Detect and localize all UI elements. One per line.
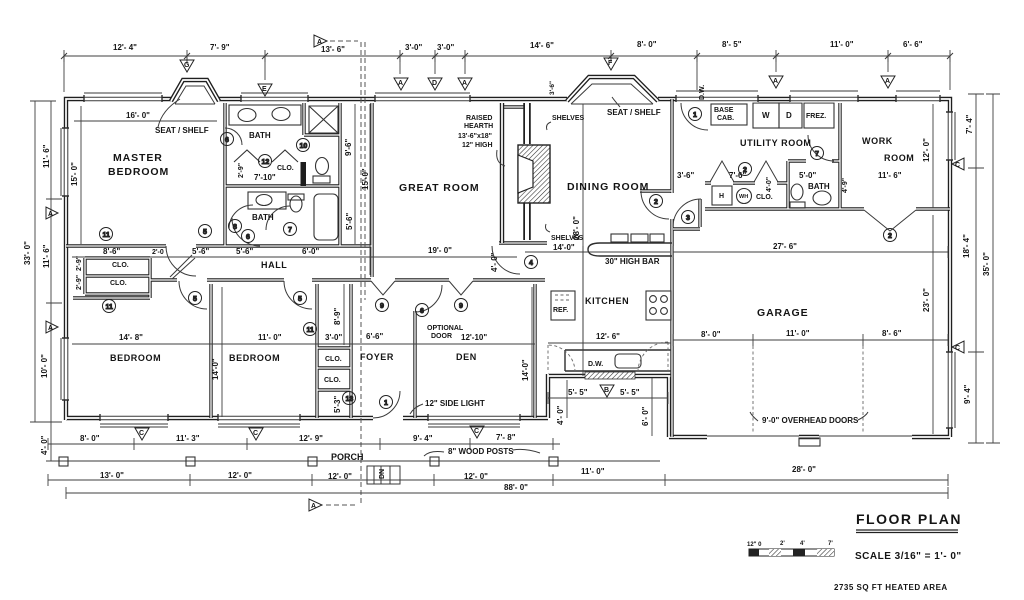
svg-text:D.W.: D.W. — [699, 85, 706, 100]
svg-text:4'- 0": 4'- 0" — [556, 405, 565, 425]
svg-text:DINING ROOM: DINING ROOM — [567, 181, 649, 193]
svg-text:4: 4 — [529, 260, 533, 267]
left inner dimension line — [46, 101, 62, 461]
svg-text:BATH: BATH — [252, 213, 274, 222]
svg-text:5'-3": 5'-3" — [333, 396, 342, 413]
svg-text:23'- 0": 23'- 0" — [922, 288, 931, 312]
marker B kitchen — [600, 385, 614, 397]
svg-text:9: 9 — [459, 303, 463, 310]
wall marker A left2 — [46, 321, 58, 333]
svg-text:BEDROOM: BEDROOM — [108, 166, 169, 178]
svg-text:12'- 0": 12'- 0" — [228, 471, 252, 480]
svg-text:12" 0: 12" 0 — [747, 542, 762, 548]
master wc toilet — [316, 158, 329, 175]
bay window dining outline — [567, 77, 658, 101]
bay window master outline — [171, 80, 219, 101]
svg-text:C: C — [139, 430, 144, 437]
fireplace masonry wall — [523, 103, 531, 240]
svg-text:HEARTH: HEARTH — [464, 123, 493, 130]
svg-text:35'- 0": 35'- 0" — [982, 252, 991, 276]
utility WH circle — [737, 189, 752, 204]
svg-text:8" WOOD POSTS: 8" WOOD POSTS — [448, 447, 514, 456]
svg-text:7'- 8": 7'- 8" — [496, 433, 516, 442]
svg-text:11: 11 — [103, 232, 111, 239]
svg-text:14'- 8": 14'- 8" — [119, 333, 143, 342]
svg-text:W: W — [762, 111, 770, 120]
svg-text:14'-0": 14'-0" — [211, 358, 220, 380]
svg-text:12'- 0": 12'- 0" — [464, 472, 488, 481]
wall marker A left1 — [46, 207, 58, 219]
svg-text:8'- 0": 8'- 0" — [701, 330, 721, 339]
porch post 2 — [186, 457, 195, 466]
bath2 tub — [314, 194, 338, 240]
svg-text:OPTIONAL: OPTIONAL — [427, 325, 464, 332]
window sills bottom wall — [100, 424, 520, 427]
kitchen door swing dashed right — [638, 342, 668, 372]
svg-text:KITCHEN: KITCHEN — [585, 296, 629, 306]
porch marker C3 — [470, 426, 484, 438]
door arc dining-garage — [641, 191, 669, 219]
svg-text:WH: WH — [739, 194, 748, 200]
bedrooms dimension line — [72, 343, 535, 345]
window sills right wall — [954, 112, 956, 428]
svg-text:DEN: DEN — [456, 352, 477, 362]
refrigerator — [551, 291, 575, 320]
svg-text:DOOR: DOOR — [431, 333, 452, 340]
door arc wc bath2 — [266, 206, 290, 230]
porch post 4 — [430, 457, 439, 466]
svg-text:11'- 0": 11'- 0" — [581, 467, 605, 476]
triangle marker E — [258, 84, 272, 96]
utility bath sink — [813, 191, 831, 205]
svg-text:27'- 6": 27'- 6" — [773, 242, 797, 251]
kitchen bottom counter — [565, 350, 671, 371]
svg-text:7': 7' — [828, 541, 833, 547]
svg-text:MASTER: MASTER — [113, 152, 163, 164]
svg-text:9: 9 — [380, 303, 384, 310]
circle 1 a — [380, 396, 393, 409]
svg-text:11'- 0": 11'- 0" — [258, 333, 282, 342]
svg-text:13: 13 — [346, 396, 354, 403]
svg-text:D: D — [432, 80, 437, 87]
svg-text:11'- 3": 11'- 3" — [176, 434, 200, 443]
porch post 1 — [59, 457, 68, 466]
bath2 vanity — [248, 192, 286, 209]
door arc utility bath — [808, 135, 834, 161]
window sills top wall — [84, 91, 940, 93]
svg-text:1: 1 — [384, 400, 388, 407]
porch post 3 — [308, 457, 317, 466]
svg-text:2: 2 — [743, 167, 747, 174]
svg-text:BEDROOM: BEDROOM — [229, 353, 280, 363]
porch marker C1 — [135, 428, 149, 440]
svg-text:FOYER: FOYER — [360, 352, 394, 362]
dryer box — [779, 103, 802, 128]
circle 10 — [297, 139, 310, 152]
svg-text:12'-10": 12'-10" — [461, 333, 487, 342]
svg-text:FREZ.: FREZ. — [806, 113, 826, 120]
door arc dining south — [492, 246, 520, 274]
svg-text:88'- 0": 88'- 0" — [504, 483, 528, 492]
master bath sink left — [238, 109, 256, 122]
svg-text:6: 6 — [246, 234, 250, 241]
door arc bath2 inner — [229, 205, 253, 229]
wall marker C right2 — [952, 341, 964, 353]
door arc den — [415, 285, 442, 312]
svg-text:D.W.: D.W. — [588, 361, 603, 368]
svg-text:5'-6": 5'-6" — [236, 247, 253, 256]
master bath sink right — [272, 108, 290, 121]
svg-text:14'-0": 14'-0" — [553, 243, 575, 252]
svg-text:CAB.: CAB. — [717, 115, 734, 122]
hall dimension line — [72, 256, 517, 258]
svg-text:6'- 0": 6'- 0" — [641, 406, 650, 426]
freezer box — [804, 103, 834, 128]
utility folding door right — [754, 161, 778, 182]
svg-text:7'-10": 7'-10" — [254, 173, 276, 182]
french door V right — [449, 281, 473, 295]
circle 9 a — [376, 299, 389, 312]
circle 7 b — [811, 147, 824, 160]
hall door5 diagonal leaf — [172, 258, 195, 279]
svg-text:4'-9": 4'-9" — [842, 178, 849, 193]
svg-text:33'- 0": 33'- 0" — [23, 241, 32, 265]
pocket door dark bar — [301, 162, 307, 186]
svg-text:5'- 5": 5'- 5" — [620, 388, 640, 397]
porch row2 dimension — [48, 474, 948, 486]
svg-text:H: H — [719, 193, 724, 200]
kitchen sink — [615, 354, 641, 368]
circle 5 c — [294, 292, 307, 305]
svg-text:ROOM: ROOM — [884, 153, 914, 163]
svg-text:5'-6": 5'-6" — [192, 247, 209, 256]
svg-text:8: 8 — [233, 224, 237, 231]
svg-text:9'- 4": 9'- 4" — [963, 384, 972, 404]
door arc vestibule-garage — [673, 199, 701, 227]
svg-text:5: 5 — [203, 229, 207, 236]
svg-text:SHELVES: SHELVES — [552, 115, 584, 122]
svg-text:13'-6"x18": 13'-6"x18" — [458, 133, 492, 140]
wall marker C right1 — [952, 158, 964, 170]
svg-text:A: A — [311, 503, 316, 510]
utility base cabinet — [711, 104, 747, 125]
fireplace hatched mass — [518, 145, 550, 203]
svg-text:12'- 6": 12'- 6" — [596, 332, 620, 341]
scale bar — [747, 541, 834, 556]
porch steps DN box — [367, 466, 400, 484]
svg-text:6: 6 — [225, 137, 229, 144]
svg-text:5'- 5": 5'- 5" — [568, 388, 588, 397]
svg-text:18'- 4": 18'- 4" — [962, 234, 971, 258]
svg-text:2'-0: 2'-0 — [152, 249, 164, 256]
circle 5 a — [199, 225, 212, 238]
svg-text:13'- 6": 13'- 6" — [321, 45, 345, 54]
svg-text:7: 7 — [815, 151, 819, 158]
svg-text:REF.: REF. — [553, 307, 568, 314]
svg-text:CLO.: CLO. — [324, 377, 341, 384]
porch marker C2 — [249, 428, 263, 440]
svg-text:11'- 0": 11'- 0" — [786, 329, 810, 338]
svg-text:3'-6": 3'-6" — [549, 81, 556, 95]
circle 11 b — [103, 300, 116, 313]
svg-text:7: 7 — [288, 227, 292, 234]
svg-text:E: E — [262, 86, 267, 93]
door arc bedroom1 — [179, 281, 207, 309]
svg-text:8'-6": 8'-6" — [103, 247, 120, 256]
svg-text:12" SIDE LIGHT: 12" SIDE LIGHT — [425, 399, 485, 408]
triangle marker A1 — [394, 78, 408, 90]
triangle marker G — [180, 60, 194, 72]
right outer dimension line 35-0 — [986, 94, 1000, 443]
circle 1 b — [689, 108, 702, 121]
kitchen top counters — [611, 234, 628, 242]
master 16-0 dim — [74, 120, 217, 122]
svg-text:11: 11 — [106, 304, 114, 311]
svg-text:4'- 0": 4'- 0" — [490, 252, 499, 272]
door arc master bedroom — [166, 246, 196, 277]
svg-text:A: A — [48, 211, 53, 218]
svg-text:FLOOR PLAN: FLOOR PLAN — [856, 511, 962, 527]
overall 88-0 dimension — [66, 487, 948, 499]
svg-text:16'- 0": 16'- 0" — [126, 111, 150, 120]
svg-text:11'- 6": 11'- 6" — [42, 144, 51, 168]
svg-text:A: A — [885, 78, 890, 85]
svg-text:3: 3 — [686, 215, 690, 222]
svg-text:3'-6": 3'-6" — [677, 171, 694, 180]
svg-text:8'-9": 8'-9" — [333, 308, 342, 325]
svg-text:8'- 5": 8'- 5" — [722, 40, 742, 49]
svg-text:C: C — [253, 430, 258, 437]
window breaks bottom wall — [100, 414, 520, 422]
utility H box — [712, 186, 732, 205]
svg-text:A: A — [398, 80, 403, 87]
svg-text:11: 11 — [307, 327, 315, 334]
svg-text:30" HIGH BAR: 30" HIGH BAR — [605, 257, 660, 266]
circle 7 a — [284, 223, 297, 236]
garage work room double door — [864, 210, 916, 231]
triangle marker A2 — [458, 78, 472, 90]
bath2 toilet — [290, 196, 302, 212]
window sills left wall — [60, 128, 62, 400]
recess 4-0 dim — [566, 380, 568, 418]
svg-text:7'- 9": 7'- 9" — [210, 43, 230, 52]
triangle marker A3 — [769, 76, 783, 88]
svg-text:C: C — [955, 162, 960, 169]
svg-text:CLO.: CLO. — [277, 165, 294, 172]
washer box — [753, 103, 779, 128]
svg-text:6'- 6": 6'- 6" — [903, 40, 923, 49]
circle 9 b — [455, 299, 468, 312]
dining-garage dimension line — [525, 246, 948, 258]
porch deck edge — [48, 460, 660, 462]
svg-text:4'-0": 4'-0" — [766, 177, 773, 192]
circle 3 — [682, 211, 695, 224]
recess 6-0 dim — [651, 378, 653, 436]
kitchen 5-5 dimension — [548, 392, 668, 404]
garage inner dimension line — [673, 334, 948, 346]
svg-text:1: 1 — [693, 112, 697, 119]
svg-text:12'- 4": 12'- 4" — [113, 43, 137, 52]
svg-text:SHELVES: SHELVES — [551, 235, 583, 242]
svg-text:C: C — [474, 428, 479, 435]
svg-text:28'- 0": 28'- 0" — [792, 465, 816, 474]
kitchen door swing dashed left — [548, 345, 575, 372]
svg-text:8'- 0": 8'- 0" — [80, 434, 100, 443]
svg-text:WORK: WORK — [862, 136, 893, 146]
top dimension line — [64, 50, 950, 62]
window breaks top wall — [84, 95, 940, 103]
svg-text:5'-0": 5'-0" — [799, 171, 816, 180]
svg-text:5: 5 — [298, 296, 302, 303]
section marker A bottom — [309, 499, 322, 511]
exterior walls — [66, 99, 950, 437]
circle 11 c — [304, 323, 317, 336]
door arc foyer front — [373, 391, 400, 418]
svg-text:A: A — [462, 80, 467, 87]
svg-text:8'- 0": 8'- 0" — [637, 40, 657, 49]
svg-text:PORCH: PORCH — [331, 452, 364, 462]
svg-text:12'- 0": 12'- 0" — [328, 472, 352, 481]
svg-text:SEAT / SHELF: SEAT / SHELF — [155, 126, 209, 135]
svg-text:5: 5 — [193, 296, 197, 303]
porch row1 dimension — [48, 438, 560, 450]
svg-text:DN: DN — [379, 469, 386, 479]
door arc master bath — [225, 128, 242, 145]
bay inner seat lines — [175, 86, 215, 104]
svg-text:UTILITY ROOM: UTILITY ROOM — [740, 138, 812, 148]
svg-text:3'-0": 3'-0" — [325, 333, 342, 342]
svg-text:BATH: BATH — [808, 182, 830, 191]
porch post 5 — [549, 457, 558, 466]
circle 13 — [343, 392, 356, 405]
circle 5 b — [189, 292, 202, 305]
section cut dashed line A-A — [326, 41, 365, 505]
svg-text:D: D — [786, 111, 792, 120]
master bath vanity counter — [229, 105, 301, 125]
svg-text:3'-0": 3'-0" — [405, 43, 422, 52]
section marker A top — [314, 35, 327, 47]
garage door panel right — [819, 435, 912, 437]
circle 2 b — [739, 163, 752, 176]
circle 12 — [259, 155, 272, 168]
svg-text:2'-9": 2'-9" — [238, 163, 245, 178]
svg-text:SCALE 3/16" = 1'- 0": SCALE 3/16" = 1'- 0" — [855, 551, 962, 562]
circle 11 a — [100, 228, 113, 241]
svg-text:3'-0": 3'-0" — [437, 43, 454, 52]
svg-text:11'- 0": 11'- 0" — [830, 40, 854, 49]
svg-text:C: C — [955, 345, 960, 352]
door arc bath2 hall — [232, 218, 260, 246]
door number circles — [100, 108, 897, 409]
svg-text:13'- 0": 13'- 0" — [100, 471, 124, 480]
circle 2 a — [650, 195, 663, 208]
svg-text:CLO.: CLO. — [325, 356, 342, 363]
svg-text:6'-6": 6'-6" — [366, 332, 383, 341]
svg-text:6'-0": 6'-0" — [302, 247, 319, 256]
svg-text:8'- 6": 8'- 6" — [882, 329, 902, 338]
stove — [646, 291, 671, 320]
kitchen 12-6 dimension — [548, 342, 671, 344]
svg-text:11'- 6": 11'- 6" — [42, 244, 51, 268]
utility folding door left — [710, 161, 734, 182]
right inner dimension line — [968, 94, 984, 443]
svg-text:CLO.: CLO. — [112, 262, 129, 269]
svg-text:9'-6": 9'-6" — [344, 139, 353, 156]
svg-text:A: A — [48, 325, 53, 332]
svg-text:F: F — [608, 60, 613, 67]
svg-text:GARAGE: GARAGE — [757, 307, 809, 319]
window breaks left wall — [62, 128, 70, 400]
interior vertical dims — [355, 104, 370, 275]
triangle marker D — [428, 78, 442, 90]
circle 6 c — [416, 304, 429, 317]
door arc bedroom2 — [284, 281, 312, 309]
garage door panel left — [707, 435, 799, 437]
svg-text:6: 6 — [420, 308, 424, 315]
interior walls — [66, 99, 950, 437]
window breaks right wall — [946, 112, 954, 428]
circle 4 — [525, 256, 538, 269]
master closet bifold doors — [234, 150, 298, 162]
svg-text:12'- 0": 12'- 0" — [922, 138, 931, 162]
triangle marker A4 — [881, 76, 895, 88]
svg-text:BATH: BATH — [249, 131, 271, 140]
circle 8 — [229, 220, 242, 233]
svg-text:5'-6": 5'-6" — [345, 213, 354, 230]
garage door center dashes — [753, 346, 863, 432]
svg-text:9'- 4": 9'- 4" — [413, 434, 433, 443]
kitchen high bar — [588, 243, 672, 256]
svg-text:2735 SQ FT HEATED AREA: 2735 SQ FT HEATED AREA — [834, 583, 948, 592]
circle 6 b — [221, 133, 234, 146]
garage middle pier block — [799, 438, 820, 446]
svg-text:2: 2 — [888, 233, 892, 240]
svg-text:14'- 6": 14'- 6" — [530, 41, 554, 50]
svg-text:2'-9": 2'-9" — [76, 256, 83, 271]
svg-text:RAISED: RAISED — [466, 115, 492, 122]
svg-text:12'- 9": 12'- 9" — [299, 434, 323, 443]
svg-text:12" HIGH: 12" HIGH — [462, 142, 493, 149]
svg-text:B: B — [604, 387, 609, 394]
svg-text:2'-9": 2'-9" — [76, 275, 83, 290]
svg-text:A: A — [773, 78, 778, 85]
triangle marker F — [604, 58, 618, 70]
left outer dimension line 33-0 — [30, 101, 56, 422]
shower with X — [309, 106, 338, 133]
great room right wall — [500, 103, 504, 243]
door arc utility entry — [681, 103, 708, 130]
svg-text:15'-0": 15'-0" — [361, 168, 370, 190]
svg-text:BEDROOM: BEDROOM — [110, 353, 161, 363]
svg-text:14'-0": 14'-0" — [521, 359, 530, 381]
svg-text:11'- 6": 11'- 6" — [878, 171, 902, 180]
utility bath toilet — [791, 184, 803, 200]
svg-text:7'- 4": 7'- 4" — [965, 114, 974, 134]
svg-text:CLO.: CLO. — [756, 194, 773, 201]
svg-text:9'-0" OVERHEAD DOORS: 9'-0" OVERHEAD DOORS — [762, 416, 859, 425]
french door V left — [371, 281, 395, 295]
svg-text:19'- 0": 19'- 0" — [428, 246, 452, 255]
svg-text:15'- 0": 15'- 0" — [70, 162, 79, 186]
kitchen door sill hatch — [585, 372, 635, 379]
svg-text:4': 4' — [800, 541, 805, 547]
svg-text:GREAT ROOM: GREAT ROOM — [399, 182, 480, 194]
svg-text:2': 2' — [780, 541, 785, 547]
circle 2 c — [884, 229, 897, 242]
fireplace firebox notch — [518, 155, 533, 193]
svg-text:2: 2 — [654, 199, 658, 206]
svg-text:HALL: HALL — [261, 260, 287, 270]
